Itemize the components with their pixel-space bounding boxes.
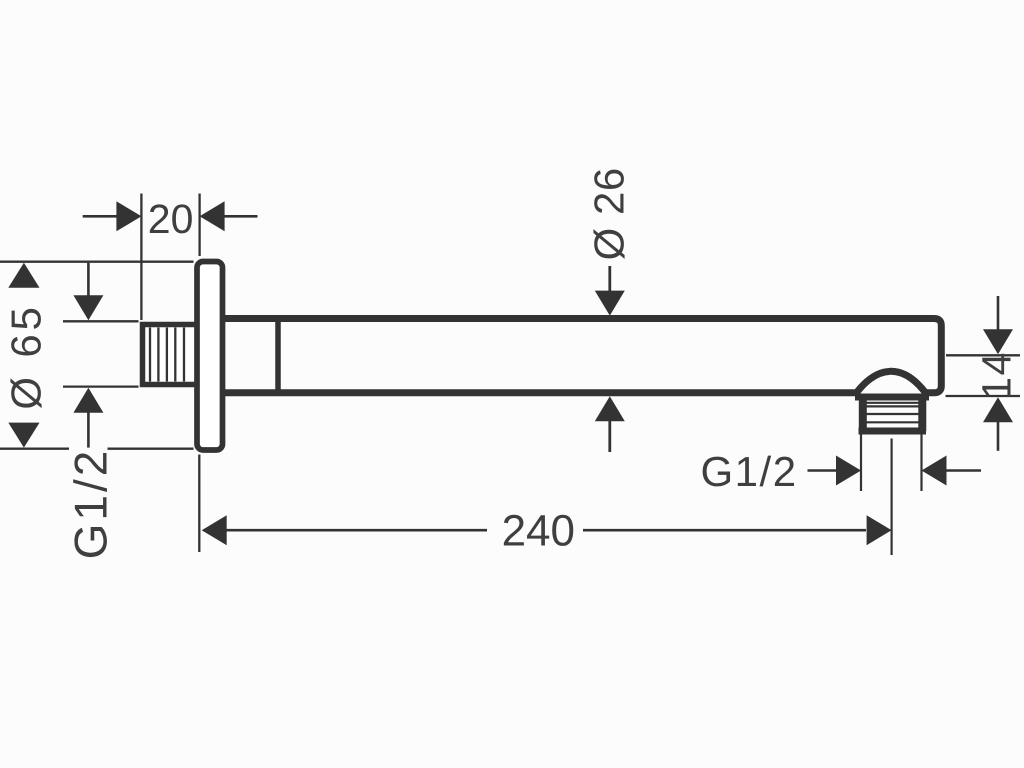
outlet thread right wall — [918, 397, 926, 431]
dim O65 up arrow — [8, 263, 39, 288]
outlet thread left wall — [859, 397, 867, 431]
outlet thread top face — [855, 394, 929, 401]
dim G1/2 outlet right leader — [945, 469, 981, 472]
dim 20 right leader — [225, 215, 258, 218]
svg-text:G1/2: G1/2 — [65, 448, 117, 560]
svg-text:14: 14 — [974, 351, 1020, 400]
outlet thread hatch lines — [867, 403, 920, 423]
dim O26 up arrow — [595, 396, 625, 421]
dim G1/2 wall upper line — [87, 263, 90, 298]
dim O26 down arrow — [595, 291, 625, 316]
dim 240 right line — [583, 529, 866, 532]
dim O65 top extension line — [0, 261, 194, 263]
arm tube top edge and right end — [225, 319, 941, 393]
flange escutcheon — [197, 262, 223, 451]
wall thread hatch lines — [150, 328, 184, 382]
outlet extension line left — [860, 435, 862, 492]
svg-text:Ø 65: Ø 65 — [3, 303, 50, 409]
dim G1/2 wall down arrow — [73, 295, 103, 320]
dim 14 top extension line — [946, 354, 1020, 356]
dim O65 bottom extension line — [0, 448, 194, 450]
arm tube bottom edge — [225, 389, 856, 396]
dim O26 upper line — [608, 266, 611, 293]
svg-text:240: 240 — [502, 507, 575, 556]
wall thread block (left G1/2 thread) — [143, 325, 199, 385]
dim 20 extension line right — [198, 194, 200, 257]
dim 14 lower line — [997, 422, 1000, 451]
dim 20 extension line left — [140, 194, 142, 321]
dim 240 left arrow — [202, 515, 227, 545]
outlet extension line right — [920, 435, 922, 492]
dim G1/2 outlet left leader — [808, 469, 839, 472]
dim 240 left extension line — [198, 455, 200, 553]
dim 240 left line — [226, 529, 487, 532]
svg-text:Ø 26: Ø 26 — [586, 167, 633, 260]
dim O26 lower line — [608, 421, 611, 453]
outlet thread bottom edge — [859, 428, 927, 435]
dim G1/2 wall bottom extension line — [63, 385, 139, 387]
dim 20 left arrow — [116, 201, 141, 231]
svg-text:G1/2: G1/2 — [701, 448, 798, 495]
dim G1/2 wall up arrow — [73, 388, 103, 413]
dim G1/2 wall lower line — [87, 412, 90, 448]
dim 20 left leader — [83, 215, 118, 218]
dim G1/2 outlet right arrow — [922, 456, 947, 486]
dim 14 upper line — [997, 296, 1000, 333]
dim G1/2 wall top extension line — [63, 320, 139, 322]
arm joint line — [275, 322, 281, 391]
dim 14 down arrow — [983, 329, 1013, 354]
dim 20 right arrow — [200, 201, 225, 231]
outlet dome fairing — [856, 371, 927, 394]
dim 240 right arrow — [867, 515, 892, 545]
outlet centerline — [890, 439, 892, 556]
dim G1/2 outlet left arrow — [836, 456, 861, 486]
dim 14 bottom extension line — [946, 395, 1021, 397]
dim O65 down arrow — [8, 423, 39, 448]
svg-text:20: 20 — [148, 196, 194, 242]
dim 14 up arrow — [983, 397, 1013, 422]
